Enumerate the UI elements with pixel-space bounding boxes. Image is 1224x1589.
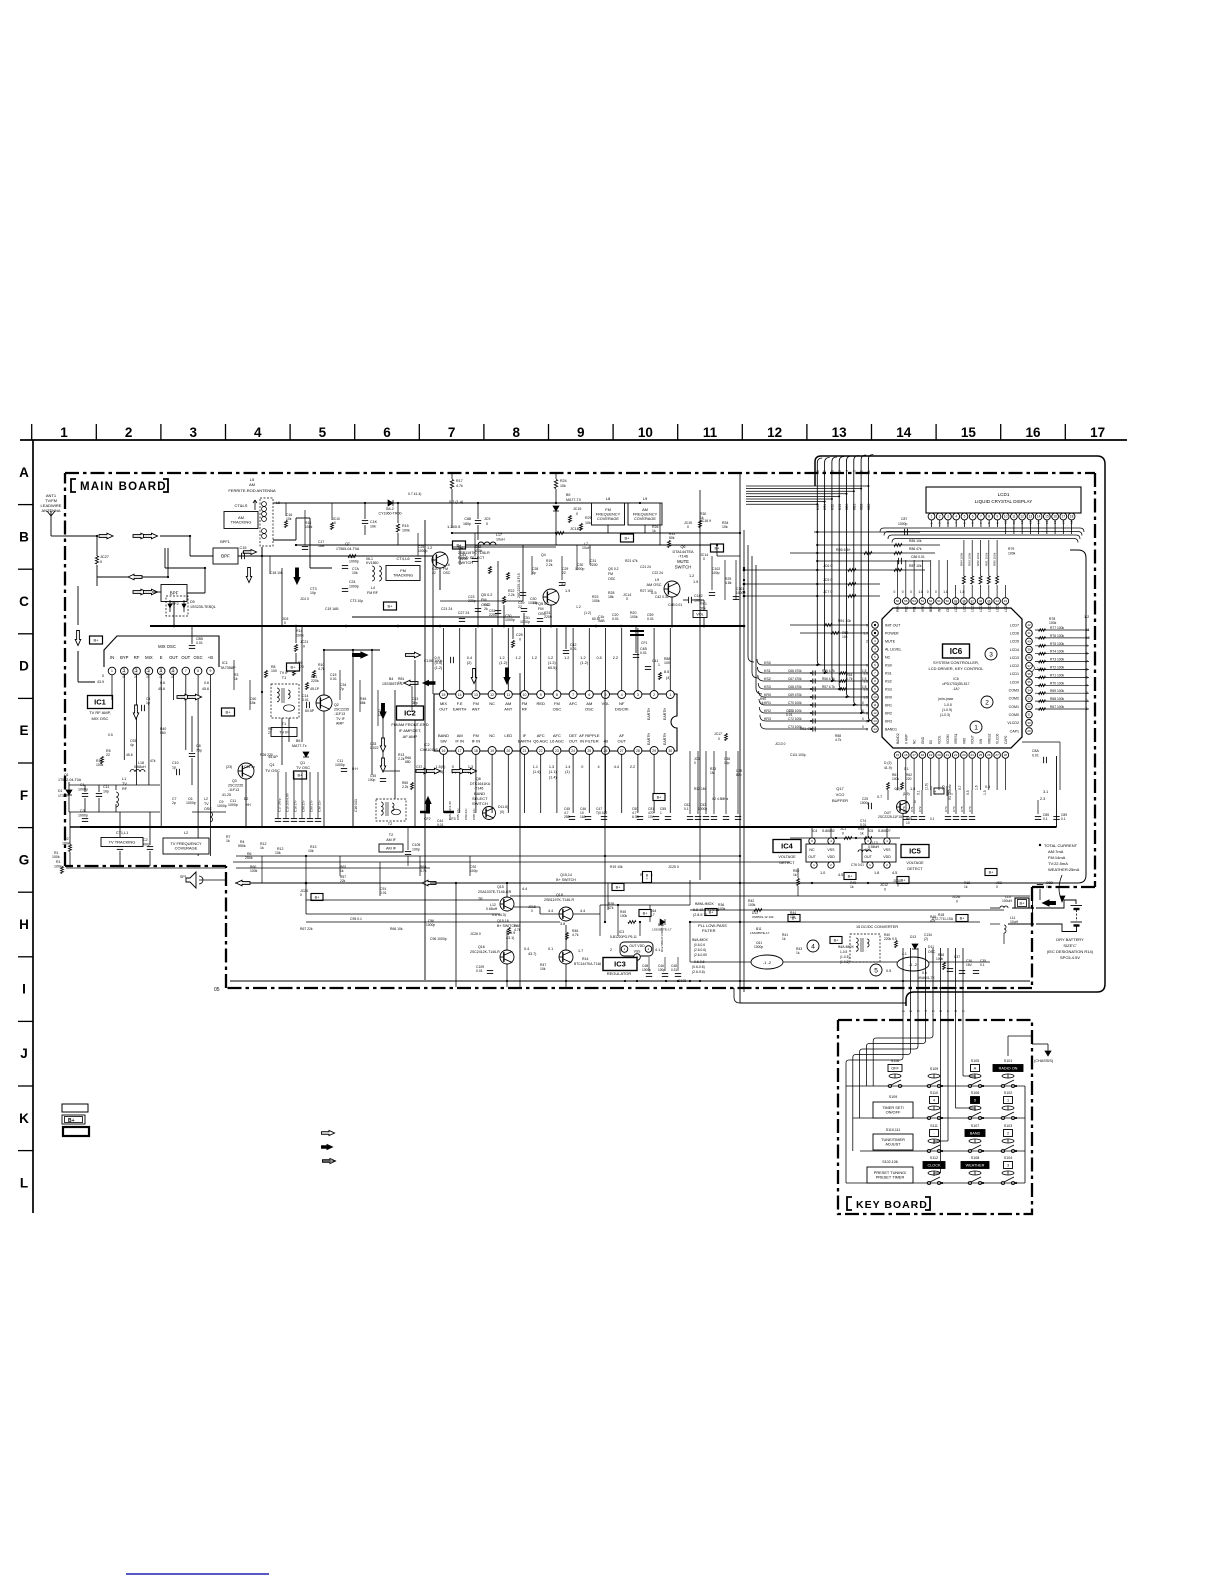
svg-text:10p: 10p bbox=[310, 591, 316, 595]
svg-text:JC18 9: JC18 9 bbox=[570, 527, 582, 531]
svg-text:Q4: Q4 bbox=[458, 546, 463, 550]
svg-text:VDD: VDD bbox=[827, 855, 835, 859]
svg-text:NC: NC bbox=[865, 848, 871, 852]
svg-text:21: 21 bbox=[946, 753, 950, 757]
svg-text:C15: C15 bbox=[240, 546, 247, 550]
svg-text:(1): (1) bbox=[565, 770, 570, 774]
svg-text:B+: B+ bbox=[315, 895, 321, 899]
svg-text:7p: 7p bbox=[340, 687, 344, 691]
circled 3 bbox=[985, 648, 997, 660]
svg-text:KS2: KS2 bbox=[885, 679, 892, 683]
svg-text:V AMP: V AMP bbox=[904, 734, 908, 744]
svg-text:(IEC DESIGNATION R14): (IEC DESIGNATION R14) bbox=[1047, 949, 1094, 954]
svg-text:7: 7 bbox=[572, 693, 574, 697]
svg-text:CT1,L1: CT1,L1 bbox=[116, 831, 128, 835]
svg-text:JC9: JC9 bbox=[484, 517, 490, 521]
svg-text:0: 0 bbox=[862, 701, 864, 705]
svg-text:TV IF: TV IF bbox=[279, 729, 289, 734]
IC3 boxed label bbox=[603, 958, 637, 971]
svg-text:JC7 0: JC7 0 bbox=[823, 590, 832, 594]
svg-text:220k 0.5: 220k 0.5 bbox=[884, 937, 897, 941]
svg-text:4.4: 4.4 bbox=[522, 887, 527, 891]
svg-text:0(2): 0(2) bbox=[895, 787, 901, 791]
keyboard nest wires bbox=[846, 1016, 903, 1183]
vert wire x433 bbox=[432, 556, 434, 694]
svg-text:BAND1: BAND1 bbox=[885, 727, 897, 731]
bus end vertical bbox=[1056, 756, 1058, 827]
T2 AM IF transformer bbox=[376, 799, 406, 821]
svg-text:MIX: MIX bbox=[440, 701, 447, 706]
svg-text:E: E bbox=[160, 655, 163, 660]
wire to battery rows bbox=[1012, 907, 1033, 909]
svg-text:0: 0 bbox=[910, 590, 912, 594]
svg-text:TV IF: TV IF bbox=[336, 717, 346, 721]
svg-text:fM/fA-fMOX: fM/fA-fMOX bbox=[695, 902, 714, 906]
svg-text:S108: S108 bbox=[971, 1156, 979, 1160]
svg-text:2: 2 bbox=[866, 639, 868, 643]
svg-text:0: 0 bbox=[300, 893, 302, 897]
svg-text:1000p: 1000p bbox=[217, 804, 227, 808]
svg-text:0: 0 bbox=[284, 621, 286, 625]
svg-text:34: 34 bbox=[1027, 688, 1031, 692]
svg-text:DISCRI: DISCRI bbox=[615, 707, 629, 712]
svg-text:100k: 100k bbox=[936, 957, 944, 961]
svg-text:CF3: CF3 bbox=[449, 817, 456, 821]
B+ box bus bbox=[90, 636, 103, 644]
svg-text:0: 0 bbox=[452, 765, 454, 769]
svg-text:Q5 0.2: Q5 0.2 bbox=[538, 602, 549, 606]
wire left col down bbox=[77, 651, 79, 680]
svg-text:R82 100k: R82 100k bbox=[976, 552, 980, 566]
svg-text:9: 9 bbox=[997, 515, 999, 519]
svg-text:P81: P81 bbox=[913, 606, 917, 612]
svg-text:8: 8 bbox=[556, 693, 558, 697]
svg-text:1.2: 1.2 bbox=[532, 656, 537, 660]
resistor ladder R67-R77 bbox=[1035, 629, 1089, 631]
svg-text:7: 7 bbox=[946, 1010, 950, 1012]
svg-text:2SC2235: 2SC2235 bbox=[228, 784, 243, 788]
svg-text:LCD10: LCD10 bbox=[987, 602, 991, 612]
svg-text:(2.8-9.71: (2.8-9.71 bbox=[693, 913, 707, 917]
svg-text:17: 17 bbox=[1061, 520, 1065, 524]
svg-text:10: 10 bbox=[1086, 636, 1090, 640]
svg-text:3: 3 bbox=[916, 1010, 920, 1012]
svg-text:R56 4.7k: R56 4.7k bbox=[822, 677, 835, 681]
svg-text:10k: 10k bbox=[286, 517, 292, 521]
wires under ic6 to bus bbox=[902, 814, 904, 827]
svg-text:100k: 100k bbox=[96, 763, 104, 767]
texture res top bbox=[285, 521, 288, 528]
IC6 top pins bbox=[894, 598, 901, 605]
svg-text:56: 56 bbox=[896, 599, 900, 603]
svg-text:KR0: KR0 bbox=[885, 695, 892, 699]
svg-text:39: 39 bbox=[1027, 648, 1031, 652]
IC6 top stub resistors R80-R84 bbox=[962, 576, 965, 584]
wire antenna down bbox=[50, 521, 52, 536]
svg-text:1.2: 1.2 bbox=[1084, 615, 1089, 619]
svg-text:0: 0 bbox=[862, 717, 864, 721]
svg-text:17: 17 bbox=[1062, 515, 1066, 519]
svg-text:C19 1AB: C19 1AB bbox=[325, 607, 339, 611]
svg-text:E0: E0 bbox=[929, 740, 933, 744]
svg-text:100k: 100k bbox=[402, 529, 410, 533]
svg-text:10k: 10k bbox=[722, 525, 728, 529]
svg-text:R14: R14 bbox=[582, 957, 588, 961]
svg-text:HH: HH bbox=[246, 803, 251, 807]
IC6 boxed label bbox=[943, 644, 970, 658]
svg-text:9: 9 bbox=[209, 669, 211, 673]
svg-text:10: 10 bbox=[873, 695, 877, 699]
svg-text:CXA1019S: CXA1019S bbox=[420, 748, 438, 752]
svg-text:10: 10 bbox=[638, 425, 653, 440]
svg-text:30: 30 bbox=[1027, 721, 1031, 725]
svg-text:R69 100k: R69 100k bbox=[1050, 689, 1064, 693]
svg-text:C21 24: C21 24 bbox=[441, 607, 452, 611]
svg-text:4.8k: 4.8k bbox=[725, 581, 732, 585]
svg-text:82p: 82p bbox=[736, 773, 742, 777]
texture mid stubs bbox=[233, 660, 235, 690]
svg-text:1T562-04-T0A: 1T562-04-T0A bbox=[58, 778, 82, 782]
filled right arrow x360 bbox=[353, 652, 368, 658]
svg-text:T1: T1 bbox=[282, 676, 286, 680]
svg-text:47k: 47k bbox=[150, 759, 156, 763]
svg-text:1k: 1k bbox=[260, 846, 264, 850]
total current text bbox=[1039, 844, 1041, 846]
svg-text:8: 8 bbox=[512, 425, 520, 440]
IC6 body outline bbox=[882, 608, 1022, 748]
svg-text:0.5: 0.5 bbox=[108, 733, 113, 737]
svg-text:Q1: Q1 bbox=[300, 761, 305, 765]
svg-text:T)0.022: T)0.022 bbox=[596, 811, 608, 815]
IC5 part bbox=[862, 844, 896, 862]
svg-text:BUFFER: BUFFER bbox=[832, 798, 848, 803]
svg-text:FM: FM bbox=[538, 607, 543, 611]
junction dots scatter bbox=[364, 502, 366, 504]
svg-text:4.7k: 4.7k bbox=[835, 738, 842, 742]
svg-text:K: K bbox=[19, 1111, 29, 1126]
svg-text:NF: NF bbox=[619, 701, 625, 706]
grid ruler top ticks bbox=[31, 424, 33, 440]
svg-text:27: 27 bbox=[620, 749, 624, 753]
svg-text:R71 100k: R71 100k bbox=[1050, 673, 1064, 677]
svg-text:RADIO ON: RADIO ON bbox=[999, 1066, 1018, 1070]
svg-text:9: 9 bbox=[577, 425, 585, 440]
row JC5 bbox=[744, 583, 880, 585]
svg-text:(0.5): (0.5) bbox=[435, 661, 444, 665]
long vert x282 bbox=[281, 568, 283, 626]
svg-text:29: 29 bbox=[652, 749, 656, 753]
svg-text:560: 560 bbox=[160, 731, 166, 735]
svg-text:VRES1: VRES1 bbox=[954, 733, 958, 744]
svg-text:LCD1: LCD1 bbox=[998, 492, 1010, 497]
B+ box t4 bbox=[621, 534, 634, 542]
svg-text:1: 1 bbox=[658, 663, 660, 667]
svg-text:1k: 1k bbox=[796, 951, 800, 955]
IC2 top pins bbox=[440, 691, 448, 699]
switch S106 bbox=[968, 1116, 971, 1119]
svg-text:0.5: 0.5 bbox=[886, 969, 891, 973]
svg-text:L2: L2 bbox=[204, 797, 208, 801]
LCD wire bundle under bbox=[884, 527, 1080, 529]
svg-text:DTA144TEA: DTA144TEA bbox=[672, 550, 693, 554]
svg-text:IF AMP,DET,: IF AMP,DET, bbox=[399, 728, 421, 733]
svg-text:100p: 100p bbox=[658, 968, 665, 972]
svg-text:LCD4: LCD4 bbox=[1010, 648, 1019, 652]
LCD1 pins bbox=[928, 513, 935, 520]
svg-text:MA77-Tx: MA77-Tx bbox=[292, 744, 307, 748]
svg-text:2.2k: 2.2k bbox=[402, 785, 409, 789]
BPF2 bbox=[161, 585, 187, 602]
svg-text:JC13 0: JC13 0 bbox=[775, 742, 786, 746]
svg-text:R91 47k: R91 47k bbox=[800, 727, 813, 731]
svg-text:CAP0: CAP0 bbox=[1004, 735, 1008, 744]
svg-text:11: 11 bbox=[1012, 515, 1016, 519]
svg-text:C4B 0.01: C4B 0.01 bbox=[668, 603, 682, 607]
K50 vertical row dots bbox=[816, 531, 818, 533]
svg-text:0.7: 0.7 bbox=[877, 795, 882, 799]
svg-text:JC25 0: JC25 0 bbox=[668, 865, 679, 869]
svg-text:COM1: COM1 bbox=[1009, 705, 1019, 709]
keyboard row wire 3 bbox=[860, 1150, 1025, 1152]
svg-text:COM0: COM0 bbox=[1009, 713, 1019, 717]
ground bus left segment bbox=[70, 826, 226, 828]
svg-text:0: 0 bbox=[956, 900, 958, 904]
B+ box ic5 bbox=[897, 877, 909, 884]
svg-text:B9: B9 bbox=[566, 493, 570, 497]
svg-text:L6: L6 bbox=[533, 601, 537, 605]
svg-text:1000p: 1000p bbox=[349, 585, 359, 589]
svg-text:1-0.5: 1-0.5 bbox=[944, 703, 952, 707]
row JC7 bbox=[744, 595, 880, 597]
wire Q area bbox=[245, 779, 247, 827]
svg-text:0: 0 bbox=[897, 884, 899, 888]
svg-text:AM IF: AM IF bbox=[386, 838, 396, 842]
C8B cap right bbox=[1037, 884, 1043, 886]
svg-text:VCOL: VCOL bbox=[938, 735, 942, 744]
svg-text:0: 0 bbox=[914, 800, 916, 804]
svg-text:4p: 4p bbox=[532, 571, 536, 575]
svg-text:LCD9: LCD9 bbox=[996, 604, 1000, 612]
svg-text:B+: B+ bbox=[387, 603, 393, 608]
svg-text:X1 750kHz: X1 750kHz bbox=[948, 784, 952, 800]
svg-text:10p: 10p bbox=[724, 761, 730, 765]
svg-text:0: 0 bbox=[102, 674, 104, 678]
svg-text:14: 14 bbox=[1037, 520, 1041, 524]
svg-text:VLCD2: VLCD2 bbox=[1007, 721, 1019, 725]
svg-text:IC6: IC6 bbox=[953, 677, 958, 681]
svg-text:10: 10 bbox=[1004, 520, 1008, 524]
switch S104 bbox=[1001, 1181, 1004, 1184]
svg-text:VSS: VSS bbox=[634, 950, 642, 954]
svg-text:CE: CE bbox=[946, 608, 950, 612]
svg-text:11: 11 bbox=[1086, 628, 1090, 632]
svg-text:AF AMP: AF AMP bbox=[403, 734, 418, 739]
svg-text:14: 14 bbox=[1037, 515, 1041, 519]
svg-text:25: 25 bbox=[587, 749, 591, 753]
arrow into BPF2 bbox=[133, 589, 147, 595]
svg-text:(1.6): (1.6) bbox=[925, 783, 929, 790]
svg-text:K52: K52 bbox=[831, 504, 835, 510]
svg-text:R21 47k: R21 47k bbox=[625, 559, 638, 563]
JC27 jumper bbox=[95, 556, 98, 564]
svg-text:7: 7 bbox=[980, 515, 982, 519]
B+ box t1 bbox=[453, 541, 466, 549]
svg-text:24: 24 bbox=[971, 753, 975, 757]
svg-text:VOLTAGE: VOLTAGE bbox=[906, 861, 924, 865]
arrow C15 bbox=[244, 550, 257, 555]
svg-text:5-B1220PG-P9-11: 5-B1220PG-P9-11 bbox=[610, 935, 637, 939]
svg-text:B+: B+ bbox=[848, 874, 854, 878]
svg-text:4.5: 4.5 bbox=[838, 873, 843, 877]
switch S109k bbox=[927, 1084, 930, 1087]
svg-text:S110: S110 bbox=[930, 1091, 938, 1095]
keyboard row wire 2 bbox=[853, 1117, 1025, 1119]
svg-text:2: 2 bbox=[950, 793, 954, 795]
svg-text:1SS235-TEBQL: 1SS235-TEBQL bbox=[190, 605, 216, 609]
svg-text:F.E: F.E bbox=[457, 701, 463, 706]
svg-text:0: 0 bbox=[303, 645, 305, 649]
svg-text:2SB1197K-T146-R: 2SB1197K-T146-R bbox=[544, 898, 575, 902]
svg-text:100k: 100k bbox=[305, 525, 313, 529]
svg-text:1.2: 1.2 bbox=[580, 656, 585, 660]
svg-text:KV1560: KV1560 bbox=[366, 561, 379, 565]
svg-text:S101: S101 bbox=[1004, 1059, 1012, 1063]
svg-text:TV RF AMP,: TV RF AMP, bbox=[89, 710, 111, 715]
open down arrow x249 bbox=[246, 568, 252, 583]
svg-text:7: 7 bbox=[823, 470, 827, 472]
svg-text:AM: AM bbox=[457, 733, 463, 738]
K50 input rows bbox=[757, 659, 868, 665]
svg-text:6: 6 bbox=[831, 470, 835, 472]
svg-text:6.3B: 6.3B bbox=[632, 815, 640, 819]
svg-text:2SC2225-11F15: 2SC2225-11F15 bbox=[517, 573, 521, 598]
svg-text:100p: 100p bbox=[470, 869, 478, 873]
svg-text:0: 0 bbox=[927, 590, 929, 594]
svg-text:55: 55 bbox=[904, 599, 908, 603]
svg-text:C75: C75 bbox=[960, 806, 964, 812]
svg-text:R26 220: R26 220 bbox=[260, 753, 273, 757]
svg-text:220: 220 bbox=[906, 777, 912, 781]
circled 5 bbox=[870, 964, 882, 976]
svg-text:100: 100 bbox=[664, 661, 670, 665]
svg-text:2: 2 bbox=[653, 693, 655, 697]
svg-text:51: 51 bbox=[937, 599, 941, 603]
svg-text:C25: C25 bbox=[516, 633, 523, 637]
svg-text:0: 0 bbox=[996, 885, 998, 889]
transistor Q17 bbox=[897, 801, 910, 814]
svg-text:D5: D5 bbox=[190, 600, 195, 604]
svg-text:KS3: KS3 bbox=[764, 685, 771, 689]
IC4 boxed label bbox=[773, 840, 801, 853]
svg-text:J: J bbox=[20, 1046, 28, 1061]
oval -1-2 left bbox=[751, 955, 783, 969]
svg-text:Q7: Q7 bbox=[345, 542, 350, 546]
transistor Q6 AM OSC bbox=[664, 581, 680, 597]
grid ruler left line bbox=[32, 440, 34, 1213]
svg-text:L9: L9 bbox=[643, 496, 648, 501]
vert x456 bbox=[455, 883, 457, 987]
svg-text:JC4 0: JC4 0 bbox=[300, 597, 309, 601]
svg-text:1: 1 bbox=[111, 669, 113, 673]
svg-text:AM:7mA: AM:7mA bbox=[1048, 849, 1064, 854]
svg-text:MUTE: MUTE bbox=[677, 559, 689, 564]
svg-text:12: 12 bbox=[1020, 515, 1024, 519]
svg-text:1k: 1k bbox=[398, 681, 402, 685]
svg-text:AM IF: AM IF bbox=[386, 846, 397, 850]
svg-text:0: 0 bbox=[862, 725, 864, 729]
svg-text:NC: NC bbox=[913, 739, 917, 744]
vert wire x520 bbox=[519, 673, 521, 987]
svg-text:4: 4 bbox=[598, 765, 600, 769]
svg-text:4.7k: 4.7k bbox=[456, 484, 463, 488]
svg-text:18: 18 bbox=[474, 749, 478, 753]
svg-text:3: 3 bbox=[1086, 691, 1088, 695]
svg-text:POWER: POWER bbox=[885, 631, 899, 635]
svg-text:0: 0 bbox=[531, 909, 533, 913]
svg-text:1: 1 bbox=[1086, 707, 1088, 711]
svg-text:3: 3 bbox=[852, 470, 856, 472]
svg-text:0.5: 0.5 bbox=[597, 656, 602, 660]
svg-text:6: 6 bbox=[972, 515, 974, 519]
svg-text:+B: +B bbox=[208, 655, 213, 660]
svg-text:F: F bbox=[20, 788, 28, 803]
svg-text:8: 8 bbox=[988, 515, 990, 519]
svg-text:1.8: 1.8 bbox=[943, 590, 948, 594]
LCD1 liquid crystal display block bbox=[926, 487, 1081, 513]
svg-text:13: 13 bbox=[1029, 515, 1033, 519]
arrow at IC1 pin6 bbox=[177, 694, 191, 700]
svg-text:41.9): 41.9) bbox=[884, 766, 892, 770]
svg-text:TRACKING: TRACKING bbox=[393, 573, 413, 578]
arrow down left col bbox=[77, 586, 79, 625]
svg-text:R17: R17 bbox=[456, 479, 463, 483]
svg-text:MA77-TX: MA77-TX bbox=[566, 498, 582, 502]
svg-text:1.5: 1.5 bbox=[862, 685, 867, 689]
svg-text:1000p: 1000p bbox=[335, 763, 345, 767]
svg-text:SYSTEM CONTROLLER,: SYSTEM CONTROLLER, bbox=[933, 660, 979, 665]
texture F right stubs bbox=[697, 751, 699, 814]
svg-text:6: 6 bbox=[939, 1010, 943, 1012]
svg-text:4.7k: 4.7k bbox=[420, 869, 427, 873]
svg-text:1: 1 bbox=[974, 724, 978, 731]
svg-text:1SS355TE-17: 1SS355TE-17 bbox=[750, 931, 770, 935]
svg-text:1000p: 1000p bbox=[860, 801, 869, 805]
svg-text:KR3: KR3 bbox=[764, 717, 771, 721]
svg-text:4: 4 bbox=[924, 1010, 928, 1012]
svg-text:550k: 550k bbox=[238, 844, 246, 848]
svg-text:45.1P: 45.1P bbox=[310, 687, 320, 691]
svg-text:1k: 1k bbox=[234, 677, 238, 681]
svg-text:1.2: 1.2 bbox=[689, 574, 694, 578]
diode B4-2 bbox=[385, 502, 395, 504]
svg-text:OSC: OSC bbox=[443, 571, 451, 575]
svg-text:JC17: JC17 bbox=[714, 732, 722, 736]
arrow signal path double bbox=[99, 533, 113, 539]
svg-text:XOUT: XOUT bbox=[971, 735, 975, 744]
svg-text:0.68uH: 0.68uH bbox=[134, 765, 146, 769]
svg-text:8: 8 bbox=[954, 1010, 958, 1012]
svg-text:-11F13: -11F13 bbox=[334, 712, 345, 716]
vert x645 bbox=[644, 525, 646, 533]
svg-text:L9: L9 bbox=[655, 578, 659, 582]
svg-text:C8A: C8A bbox=[1032, 749, 1039, 753]
svg-text:1.2: 1.2 bbox=[499, 656, 504, 660]
svg-text:R51 10k: R51 10k bbox=[838, 619, 851, 623]
svg-text:Q18: Q18 bbox=[556, 893, 563, 897]
svg-text:LCD5: LCD5 bbox=[1010, 640, 1019, 644]
svg-text:OUT: OUT bbox=[439, 707, 448, 712]
KEY BOARD title bbox=[847, 1197, 852, 1210]
